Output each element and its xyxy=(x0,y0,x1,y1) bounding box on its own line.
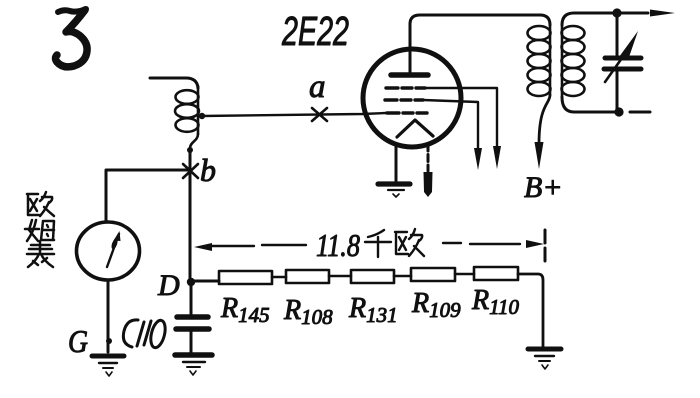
svg-text:R131: R131 xyxy=(348,293,398,327)
tube plate bar xyxy=(391,72,428,78)
ohmmeter circle xyxy=(77,222,140,280)
ground under tube pin xyxy=(378,184,410,197)
secondary loop 2 xyxy=(562,40,585,54)
svg-text:R108: R108 xyxy=(283,295,333,329)
heater pin dashed arrow xyxy=(427,144,430,171)
primary loop 2 xyxy=(528,40,551,54)
primary loop 1 xyxy=(528,26,551,40)
junction blob at coil tap xyxy=(199,113,205,119)
ground under meter xyxy=(92,356,124,376)
svg-text:a: a xyxy=(309,69,326,105)
svg-text:R109: R109 xyxy=(411,288,461,322)
coil L core line xyxy=(197,86,200,134)
alignment X mark at node a xyxy=(312,108,327,121)
wire R108 to R131 xyxy=(329,275,351,278)
secondary loop 4 xyxy=(562,68,585,82)
junction dot on meter ground lead xyxy=(106,338,112,344)
bottom right stub xyxy=(630,111,650,114)
dimension line dashes left xyxy=(212,245,306,246)
resistor R109 body xyxy=(411,268,455,281)
figure number 3 xyxy=(56,9,88,67)
svg-text:11.8: 11.8 xyxy=(316,227,360,263)
ground right of resistor chain xyxy=(528,349,561,369)
resistor R108 body xyxy=(286,270,329,283)
wire plate to transformer primary xyxy=(410,15,550,25)
primary loop 5 xyxy=(528,82,551,96)
capacitor C110 bottom lead xyxy=(190,331,193,352)
label C110 xyxy=(123,319,167,349)
transformer secondary core line xyxy=(561,25,564,97)
primary loop 4 xyxy=(528,68,551,82)
coil L loop 3 xyxy=(176,118,199,132)
wire node b down to node D xyxy=(189,152,192,282)
capacitor C110 bottom plate xyxy=(176,326,209,332)
ohmmeter needle xyxy=(107,234,119,267)
variable capacitor top lead xyxy=(616,13,619,55)
wire R109 to R110 xyxy=(455,273,474,276)
svg-text:B+: B+ xyxy=(524,171,563,204)
tube grid row 1 (dashes) xyxy=(386,86,425,89)
B+ arrow xyxy=(535,142,544,169)
svg-text:2E22: 2E22 xyxy=(281,8,349,54)
coil L loop 2 xyxy=(175,104,199,118)
variable capacitor bottom lead xyxy=(616,71,619,112)
meter bottom lead xyxy=(107,281,110,352)
tube cathode xyxy=(397,120,433,137)
dimension line right arrow xyxy=(526,240,544,248)
junction dot bottom of tank xyxy=(614,107,623,116)
grid row 1 arrow xyxy=(493,146,501,169)
junction dot below coil xyxy=(187,147,193,153)
wire R145 to R108 xyxy=(272,276,286,279)
wire R110 to right ground xyxy=(518,274,543,347)
dimension label 欧 (second) xyxy=(395,229,424,256)
tube grid row 3 (dashes) xyxy=(387,111,427,114)
tube plate lead up xyxy=(409,24,412,73)
primary bottom lead to B+ xyxy=(539,95,550,144)
wire node b to meter branch xyxy=(106,170,190,221)
capacitor C110 top plate xyxy=(177,314,208,320)
wire R131 to R109 xyxy=(394,275,411,278)
tube cathode pin xyxy=(395,144,398,181)
ohmmeter label 表 xyxy=(27,241,54,267)
transformer primary core line xyxy=(549,25,552,95)
secondary loop 3 xyxy=(562,54,585,68)
capacitor C110 top lead xyxy=(190,284,193,315)
top right arrow xyxy=(650,10,675,17)
wire node D to resistor chain xyxy=(194,280,219,283)
svg-text:R110: R110 xyxy=(471,285,520,319)
alignment X mark at node b xyxy=(183,164,198,178)
svg-text:R145: R145 xyxy=(220,293,270,327)
secondary bottom lead xyxy=(562,97,622,112)
tube grid row 2 (dashes) xyxy=(385,98,423,101)
secondary loop 5 xyxy=(562,82,585,96)
secondary top lead xyxy=(562,13,648,25)
primary loop 3 xyxy=(528,54,551,68)
svg-text:b: b xyxy=(200,152,216,188)
node D dot xyxy=(187,278,195,286)
variable capacitor top plate xyxy=(605,56,641,61)
variable capacitor bottom plate xyxy=(604,67,641,72)
junction dot top of tank xyxy=(612,8,621,17)
grid row 2 lead right xyxy=(423,100,478,150)
ground under capacitor C110 xyxy=(175,355,212,375)
grid row 2 arrow xyxy=(474,148,482,170)
wire coil tap to tube grid (through node a) xyxy=(202,113,386,116)
dimension line dashes right xyxy=(443,243,520,244)
dimension label 千 xyxy=(365,230,391,257)
coil L loop 1 xyxy=(176,90,199,104)
ohmmeter label 姆 xyxy=(25,220,54,241)
resistor R110 body xyxy=(474,267,518,280)
tube envelope xyxy=(363,49,461,147)
resistor R145 body xyxy=(219,271,272,284)
dimension line right tick xyxy=(544,230,547,261)
grid row 1 lead right xyxy=(425,88,497,148)
coil L top stub wire xyxy=(150,78,198,88)
dimension line left arrow xyxy=(194,243,212,251)
svg-text:G: G xyxy=(68,323,88,359)
resistor R131 body xyxy=(351,270,394,283)
ohmmeter label 欧 xyxy=(27,192,54,216)
variable capacitor arrow xyxy=(605,58,622,82)
svg-text:D: D xyxy=(157,269,180,302)
secondary loop 1 xyxy=(562,26,585,40)
coil L bottom lead xyxy=(190,134,198,148)
